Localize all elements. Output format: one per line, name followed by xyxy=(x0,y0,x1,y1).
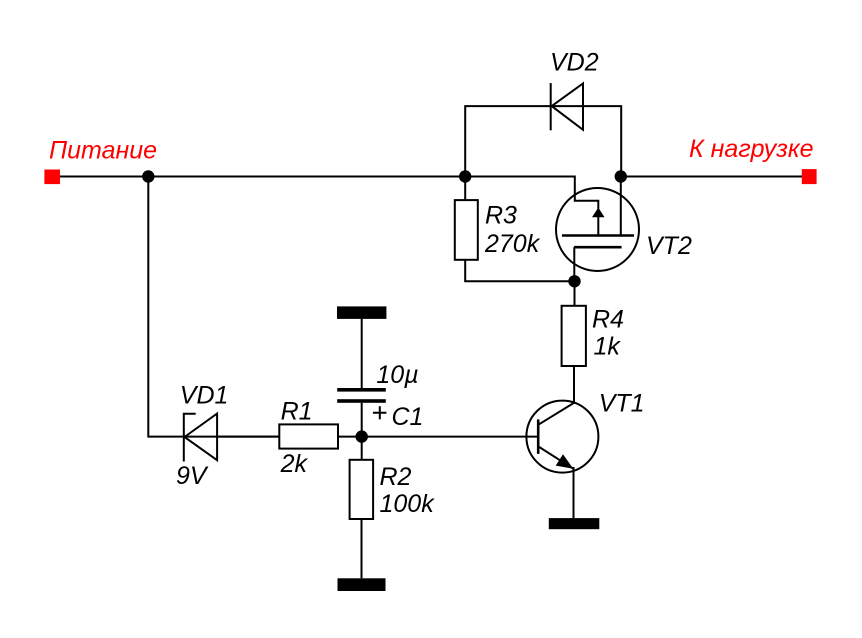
value: 270k (R3) xyxy=(484,230,541,258)
transistor VT1 collector diagonal xyxy=(538,403,574,425)
ground: top ground bar above C1 xyxy=(337,306,386,319)
ground: bottom ground bar below R2 xyxy=(338,578,386,591)
wire: R4 bottom lead down to VT1 collector xyxy=(573,366,575,403)
label: К нагрузке (net name, red) xyxy=(689,135,814,163)
transistor VT1 body circle (npn BJT) xyxy=(526,401,598,473)
svg-text:Питание: Питание xyxy=(49,137,157,165)
value: 1k (R4) xyxy=(594,333,622,361)
svg-text:100k: 100k xyxy=(380,490,436,518)
svg-text:R4: R4 xyxy=(592,306,624,334)
transistor VT2 substrate arrow (points up) xyxy=(592,208,605,218)
svg-text:R2: R2 xyxy=(380,463,412,491)
svg-text:R1: R1 xyxy=(281,398,313,426)
wire: VD2 branch left riser and top run to diode xyxy=(465,106,550,176)
wire: R4 top lead from gate node xyxy=(574,281,576,306)
transistor VT1 base bar xyxy=(537,419,540,454)
node: junction rail / VD2 right / VT2 drain xyxy=(615,170,627,182)
svg-text:VT1: VT1 xyxy=(599,389,645,417)
svg-text:К нагрузке: К нагрузке xyxy=(689,135,814,163)
label: C1 xyxy=(392,403,424,431)
label: R1 xyxy=(281,398,313,426)
wire: VD2 top run right segment and right riser down to drain node xyxy=(551,106,621,176)
wire: output rail from VT2 drain to load terminal xyxy=(621,176,802,178)
transistor VT1 emitter arrow (points out) xyxy=(556,454,574,469)
node: junction rail / R3 / VD2 left xyxy=(459,170,471,182)
svg-text:9V: 9V xyxy=(176,462,209,490)
label: VD1 xyxy=(180,382,229,410)
value: 2k (R1) xyxy=(280,450,309,478)
capacitor C1 top plate xyxy=(337,388,386,392)
wire: power rail from input terminal to VT2 source xyxy=(52,176,575,178)
polarity: plus sign of C1 xyxy=(373,406,387,419)
diode VD2 cathode bar xyxy=(550,83,552,130)
value: 10µ (C1) xyxy=(376,361,418,389)
wire: base node down to R2 xyxy=(361,437,363,460)
diode VD2 triangle (anode, pointing left) xyxy=(552,83,583,129)
wire: VD1 anode to R1 xyxy=(217,436,279,438)
ground: ground bar below VT1 emitter xyxy=(549,518,600,529)
svg-text:2k: 2k xyxy=(280,450,309,478)
label: VT2 xyxy=(646,232,692,260)
svg-text:VT2: VT2 xyxy=(646,232,692,260)
node: junction R3 / VT2 gate / R4 xyxy=(568,275,580,287)
wire: left branch down from rail through VD1 to R1 xyxy=(148,177,279,437)
svg-text:1k: 1k xyxy=(594,333,622,361)
wire: VT1 emitter down to ground xyxy=(573,467,575,518)
wire: R3 bottom lead down and right to gate node xyxy=(465,260,574,282)
svg-text:C1: C1 xyxy=(392,403,424,431)
wire: ground to C1 top plate xyxy=(361,319,363,389)
transistor VT2 channel line xyxy=(562,234,634,237)
wire: VT2 gate lead down to gate node xyxy=(573,247,575,281)
terminal: К нагрузке output (red square) xyxy=(802,169,817,184)
wire: R1 to base node and on to VT1 base xyxy=(338,436,538,438)
label: R3 xyxy=(485,201,517,229)
zener diode VD1 cathode bar with tick xyxy=(184,414,196,462)
label: Питание (net name, red) xyxy=(49,137,157,165)
transistor VT2 gate line xyxy=(574,246,622,249)
transistor VT2 body circle (p-channel MOSFET) xyxy=(556,188,639,271)
value: 100k (R2) xyxy=(380,490,436,518)
svg-text:R3: R3 xyxy=(485,201,517,229)
terminal: Питание input (red square) xyxy=(44,170,60,185)
label: VT1 xyxy=(599,389,645,417)
transistor VT2 source lead (from rail, stepped into circle) xyxy=(575,176,599,236)
node: junction R1 / C1 / R2 / VT1 base xyxy=(356,430,368,442)
resistor R2 body xyxy=(350,460,374,519)
wire: C1 bottom plate down to base node xyxy=(361,403,363,437)
svg-text:10µ: 10µ xyxy=(376,361,418,389)
label: VD2 xyxy=(550,49,599,77)
wire: R3 top lead from rail node xyxy=(464,177,466,201)
transistor VT1 emitter diagonal xyxy=(538,446,573,468)
capacitor C1 bottom plate xyxy=(337,399,386,403)
label: R2 xyxy=(380,463,412,491)
zener diode VD1 triangle (anode, pointing left) xyxy=(185,414,218,461)
transistor VT2 drain lead xyxy=(620,177,622,236)
resistor R1 body xyxy=(279,424,338,448)
svg-text:270k: 270k xyxy=(484,230,541,258)
svg-text:VD1: VD1 xyxy=(180,382,229,410)
value: 9V (VD1) xyxy=(176,462,209,490)
svg-text:VD2: VD2 xyxy=(550,49,599,77)
label: R4 xyxy=(592,306,624,334)
node: junction rail / left branch xyxy=(142,170,154,182)
resistor R3 body xyxy=(455,200,478,260)
wire: R2 bottom lead to ground xyxy=(361,519,363,578)
resistor R4 body xyxy=(562,306,586,366)
